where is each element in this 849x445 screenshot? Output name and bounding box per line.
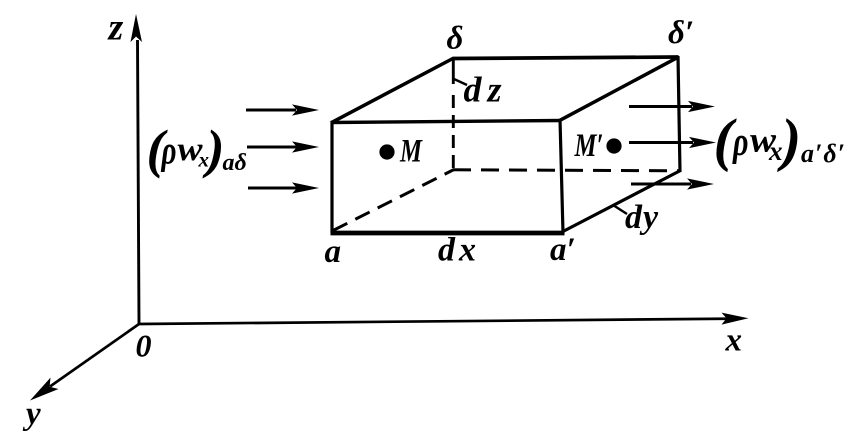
box top-right slant edge — [560, 57, 679, 121]
svg-text:z: z — [107, 7, 124, 49]
svg-text:а′δ′: а′δ′ — [801, 139, 846, 168]
box bottom-right slant edge — [562, 171, 681, 233]
svg-text:dy: dy — [625, 199, 659, 236]
svg-text:аδ: аδ — [223, 150, 247, 176]
left flux formula (rho w_x)_av — [147, 119, 247, 179]
box top back edge v-v' — [453, 57, 679, 59]
box front face — [331, 119, 565, 233]
hidden vertical edge dz line — [452, 59, 455, 175]
svg-text:dz: dz — [464, 70, 508, 110]
svg-text:M′: M′ — [574, 128, 604, 164]
svg-text:M: M — [399, 134, 423, 170]
point M' dot — [606, 138, 621, 153]
svg-text:x: x — [725, 323, 743, 359]
svg-text:а: а — [325, 234, 342, 270]
svg-text:y: y — [22, 396, 41, 432]
box back-right vertical edge — [678, 56, 680, 172]
dz tick — [454, 79, 467, 85]
svg-text:ρ: ρ — [732, 118, 749, 164]
dy tick — [613, 205, 627, 214]
svg-text:0: 0 — [136, 328, 152, 364]
hidden bottom back edge dashed — [453, 170, 680, 171]
z-axis — [131, 14, 143, 324]
point M dot — [379, 144, 394, 159]
svg-text:ρ: ρ — [161, 128, 177, 173]
right flux formula (rho w_x)_a'v' — [714, 107, 846, 173]
svg-text:x: x — [768, 136, 783, 166]
left inflow arrow 3 — [248, 182, 319, 193]
y-axis — [30, 324, 139, 401]
svg-text:δ: δ — [447, 21, 464, 57]
right outflow arrow 2 — [629, 137, 716, 148]
right outflow arrow 1 — [629, 101, 715, 112]
x-axis — [139, 313, 749, 325]
svg-text:δ′: δ′ — [668, 15, 694, 51]
box top-left slant edge a-v — [331, 58, 454, 123]
right outflow arrow 3 — [631, 178, 714, 189]
hidden edge dashed a to back corner — [333, 170, 454, 231]
svg-text:а′: а′ — [550, 232, 576, 268]
left inflow arrow 1 — [246, 104, 319, 115]
left inflow arrow 2 — [247, 141, 319, 152]
svg-text:dx: dx — [438, 232, 480, 269]
